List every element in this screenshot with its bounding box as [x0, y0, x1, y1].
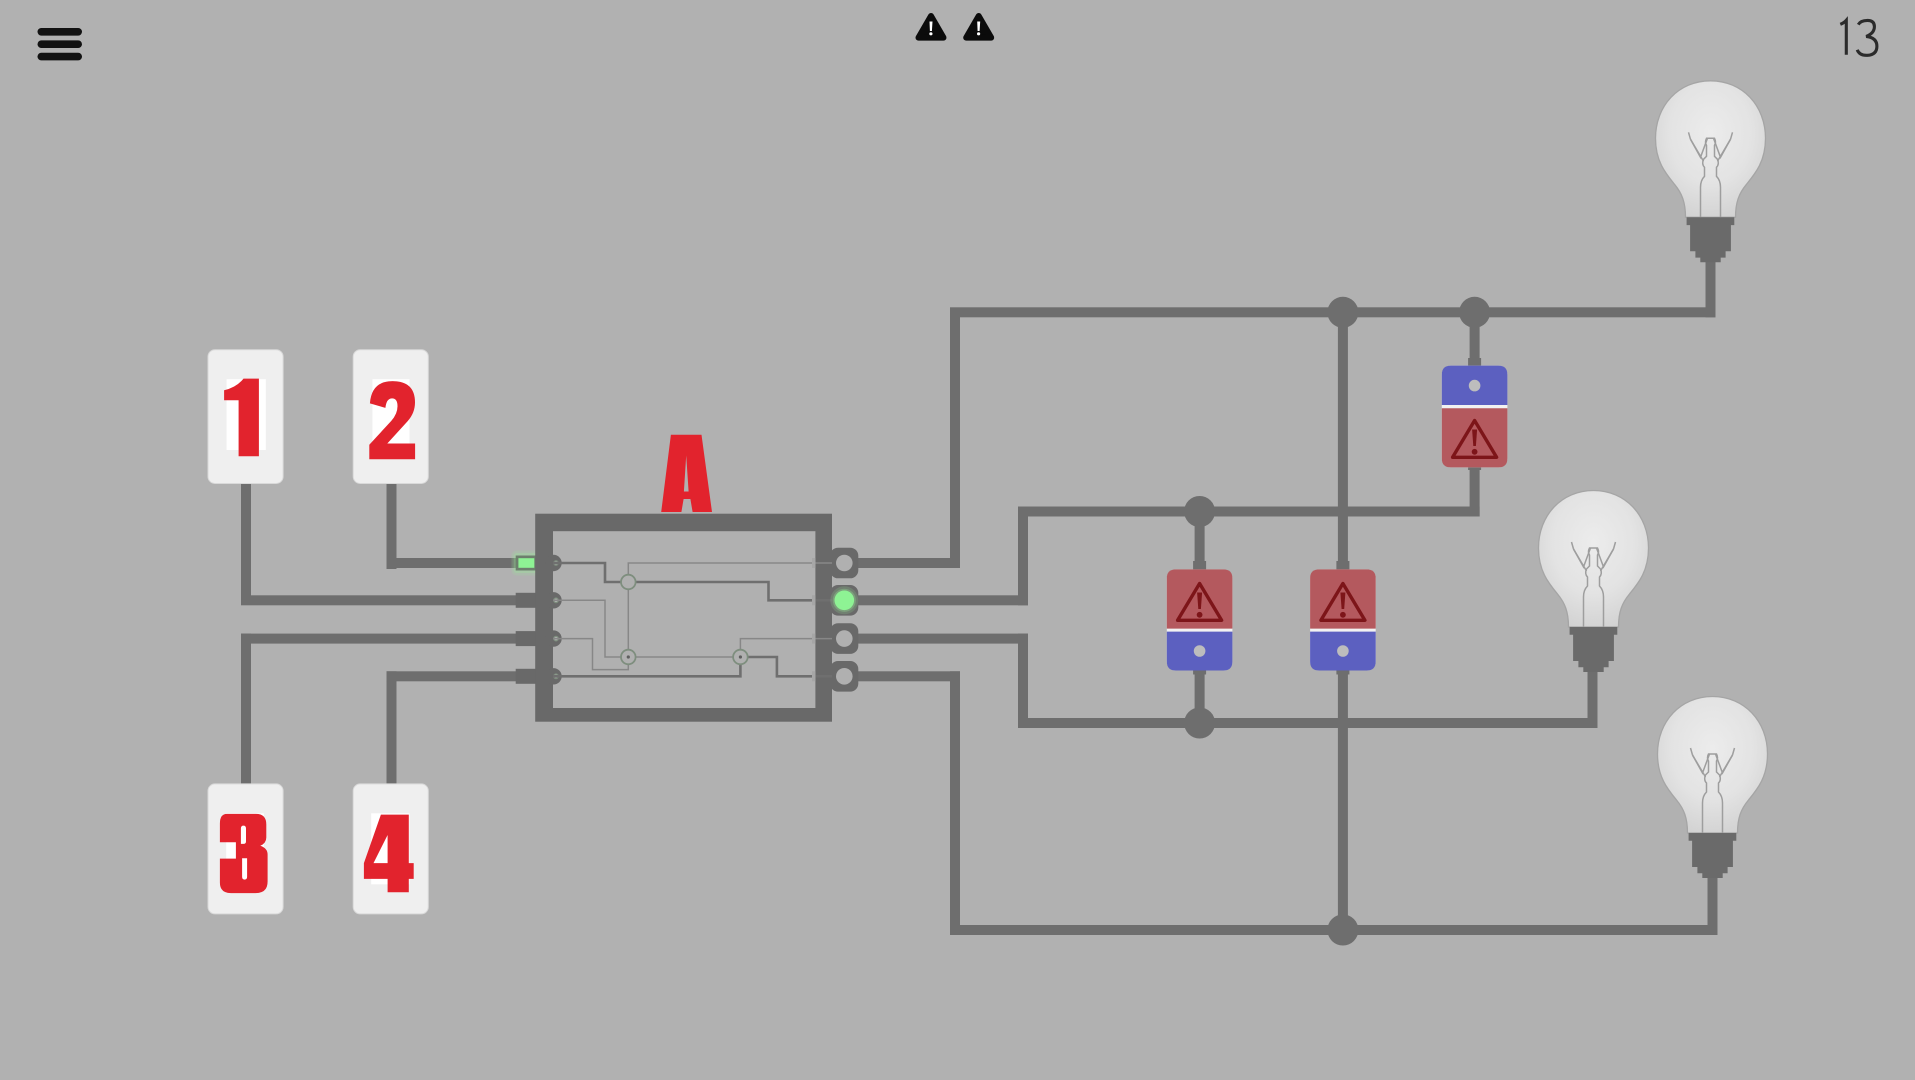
digit 4 — [364, 815, 414, 893]
wire comp2 bottom vertical — [1338, 668, 1348, 935]
S1 body — [1167, 569, 1233, 670]
chip right pin tab 4 — [830, 661, 858, 692]
wire bulb2 drop — [1588, 660, 1598, 728]
wire bulb3 drop — [1708, 865, 1718, 935]
chip internal traces thick — [553, 563, 832, 676]
S2 blue half — [1310, 632, 1376, 671]
chip left pin tab 2 — [516, 593, 537, 608]
S1 warning triangle — [1178, 584, 1222, 621]
S3 connector nub bottom — [1468, 462, 1481, 470]
chip left pin tab 3 — [516, 631, 537, 646]
wire comp3 top vertical — [1470, 307, 1480, 372]
S2 body — [1310, 569, 1376, 670]
card 3 — [208, 784, 283, 914]
wire comp3 bottom vertical — [1470, 463, 1480, 517]
chip left pin tab 4 — [516, 669, 537, 684]
wire card2 -> chip left pin1 — [387, 484, 397, 569]
S2 connector nub top — [1336, 561, 1349, 571]
node bottom junction — [1327, 915, 1358, 946]
menu icon — [38, 28, 83, 60]
wire bulb1 drop — [1706, 255, 1716, 317]
wire card1 -> chip left pin2 — [241, 484, 251, 605]
S3 connector nub top — [1468, 358, 1481, 368]
chip right pin tab 3 — [830, 623, 858, 654]
node top-right junction — [1459, 297, 1490, 328]
card 1 — [208, 350, 283, 484]
chip right pin circles — [836, 555, 853, 572]
S3 exclamation — [1472, 430, 1477, 447]
S3 red half — [1442, 408, 1508, 467]
S2 exclamation — [1340, 593, 1345, 610]
chip internal node rings — [621, 575, 636, 590]
node top-left junction — [1327, 297, 1358, 328]
digit 3 — [220, 814, 268, 893]
digit 1 — [224, 379, 259, 457]
S1 connector nub bottom — [1193, 667, 1206, 675]
wire comp1 bottom vertical — [1195, 668, 1205, 728]
S2 connector nub bottom — [1336, 667, 1349, 675]
digit 2 — [369, 381, 415, 459]
chip internal traces thin — [553, 563, 832, 670]
S2 red half — [1310, 569, 1376, 628]
chip body — [535, 514, 832, 722]
level number 13 — [1840, 20, 1877, 55]
chip right pin tab 2 — [830, 585, 858, 616]
wire chip right pin3 -> lower rail — [858, 634, 1028, 644]
chip label A — [661, 435, 712, 512]
lamp L1 (top right) — [1656, 81, 1766, 262]
wire chip right pin4 -> bottom rail — [858, 671, 960, 681]
warning icon 1 — [919, 16, 944, 38]
S3 blue dot — [1469, 380, 1481, 392]
chip U-A — [512, 435, 859, 722]
chip inner area — [553, 531, 815, 708]
wire comp2 top vertical — [1338, 307, 1348, 572]
S1 connector nub top — [1193, 561, 1206, 571]
lower rail wire — [1018, 718, 1598, 728]
wire card4 -> chip left pin4 — [387, 671, 397, 784]
chip left pin tab 1 (green LED) — [512, 551, 541, 576]
chip inner pin bumps left wall — [545, 555, 561, 571]
S3 body — [1442, 366, 1508, 468]
S1 blue half — [1167, 632, 1233, 671]
S1 exclamation — [1197, 593, 1202, 610]
wire chip right pin1 -> top rail — [858, 558, 960, 568]
S1 red half — [1167, 569, 1233, 628]
component S1 (middle-left red/blue switch) — [1167, 561, 1233, 675]
S1 blue dot — [1194, 645, 1206, 657]
mid rail wire — [1018, 507, 1480, 517]
card 2 — [353, 350, 428, 484]
wire chip right pin2 -> mid rail — [858, 595, 1028, 605]
chip wall notches right — [812, 558, 816, 681]
warning icon 2 — [966, 16, 991, 38]
S2 warning triangle — [1321, 584, 1365, 621]
S3 blue half — [1442, 366, 1508, 405]
chip right pin tab 1 — [830, 548, 858, 579]
component S3 (top-right blue/red switch, flipped) — [1442, 358, 1508, 470]
bottom rail wire — [950, 925, 1718, 935]
node mid junction — [1184, 496, 1215, 527]
S2 blue dot — [1337, 645, 1349, 657]
node lower junction — [1184, 708, 1215, 739]
lamp L2 (middle right) — [1539, 491, 1649, 673]
card 4 — [353, 784, 428, 914]
lamp L3 (bottom right) — [1658, 697, 1768, 879]
wire comp1 top vertical — [1195, 507, 1205, 573]
top rail wire — [950, 307, 1716, 317]
component S2 (middle-right red/blue switch) — [1310, 561, 1376, 675]
wire card3 -> chip left pin3 — [241, 634, 251, 785]
S3 warning triangle — [1453, 421, 1497, 458]
